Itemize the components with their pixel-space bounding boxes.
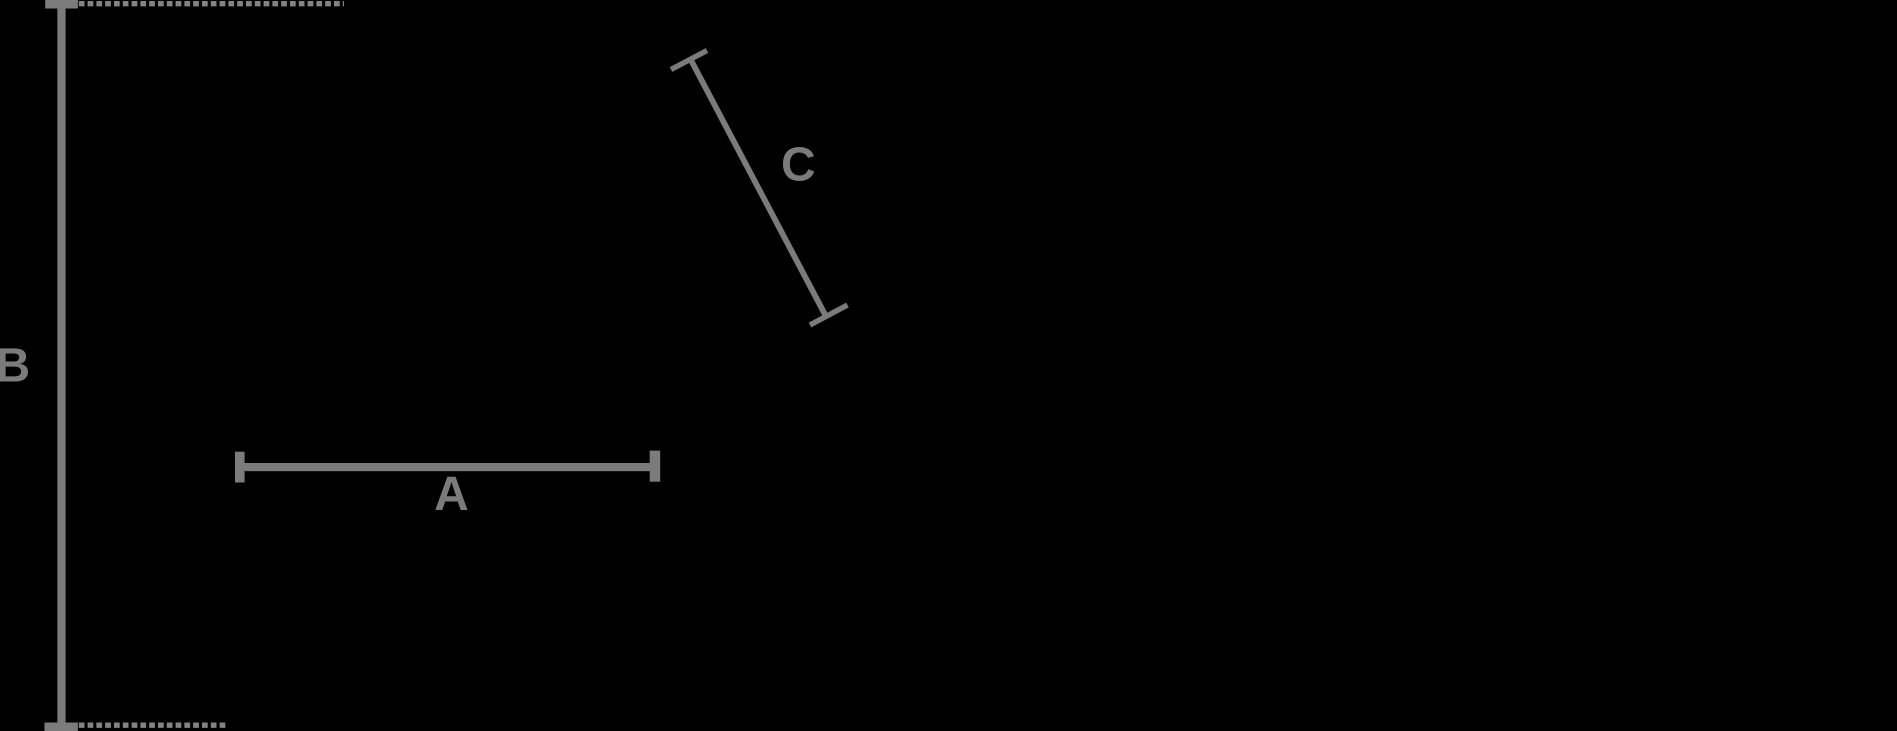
dimension A right cap bbox=[650, 451, 661, 482]
dimension B top cap bbox=[45, 0, 78, 9]
dimension B vertical line bbox=[57, 0, 65, 731]
dimension C top cap bbox=[671, 51, 707, 70]
svg-text:B: B bbox=[0, 340, 30, 393]
dimension C bottom cap bbox=[810, 305, 848, 325]
bottom dotted extension line bbox=[79, 723, 228, 728]
top dotted extension line bbox=[79, 1, 344, 6]
dimension A line bbox=[244, 463, 650, 471]
dimension C line bbox=[691, 59, 827, 316]
dimension B bottom cap bbox=[45, 723, 78, 731]
dimension A left cap bbox=[235, 452, 245, 483]
svg-text:A: A bbox=[434, 468, 469, 521]
svg-text:C: C bbox=[781, 139, 816, 192]
